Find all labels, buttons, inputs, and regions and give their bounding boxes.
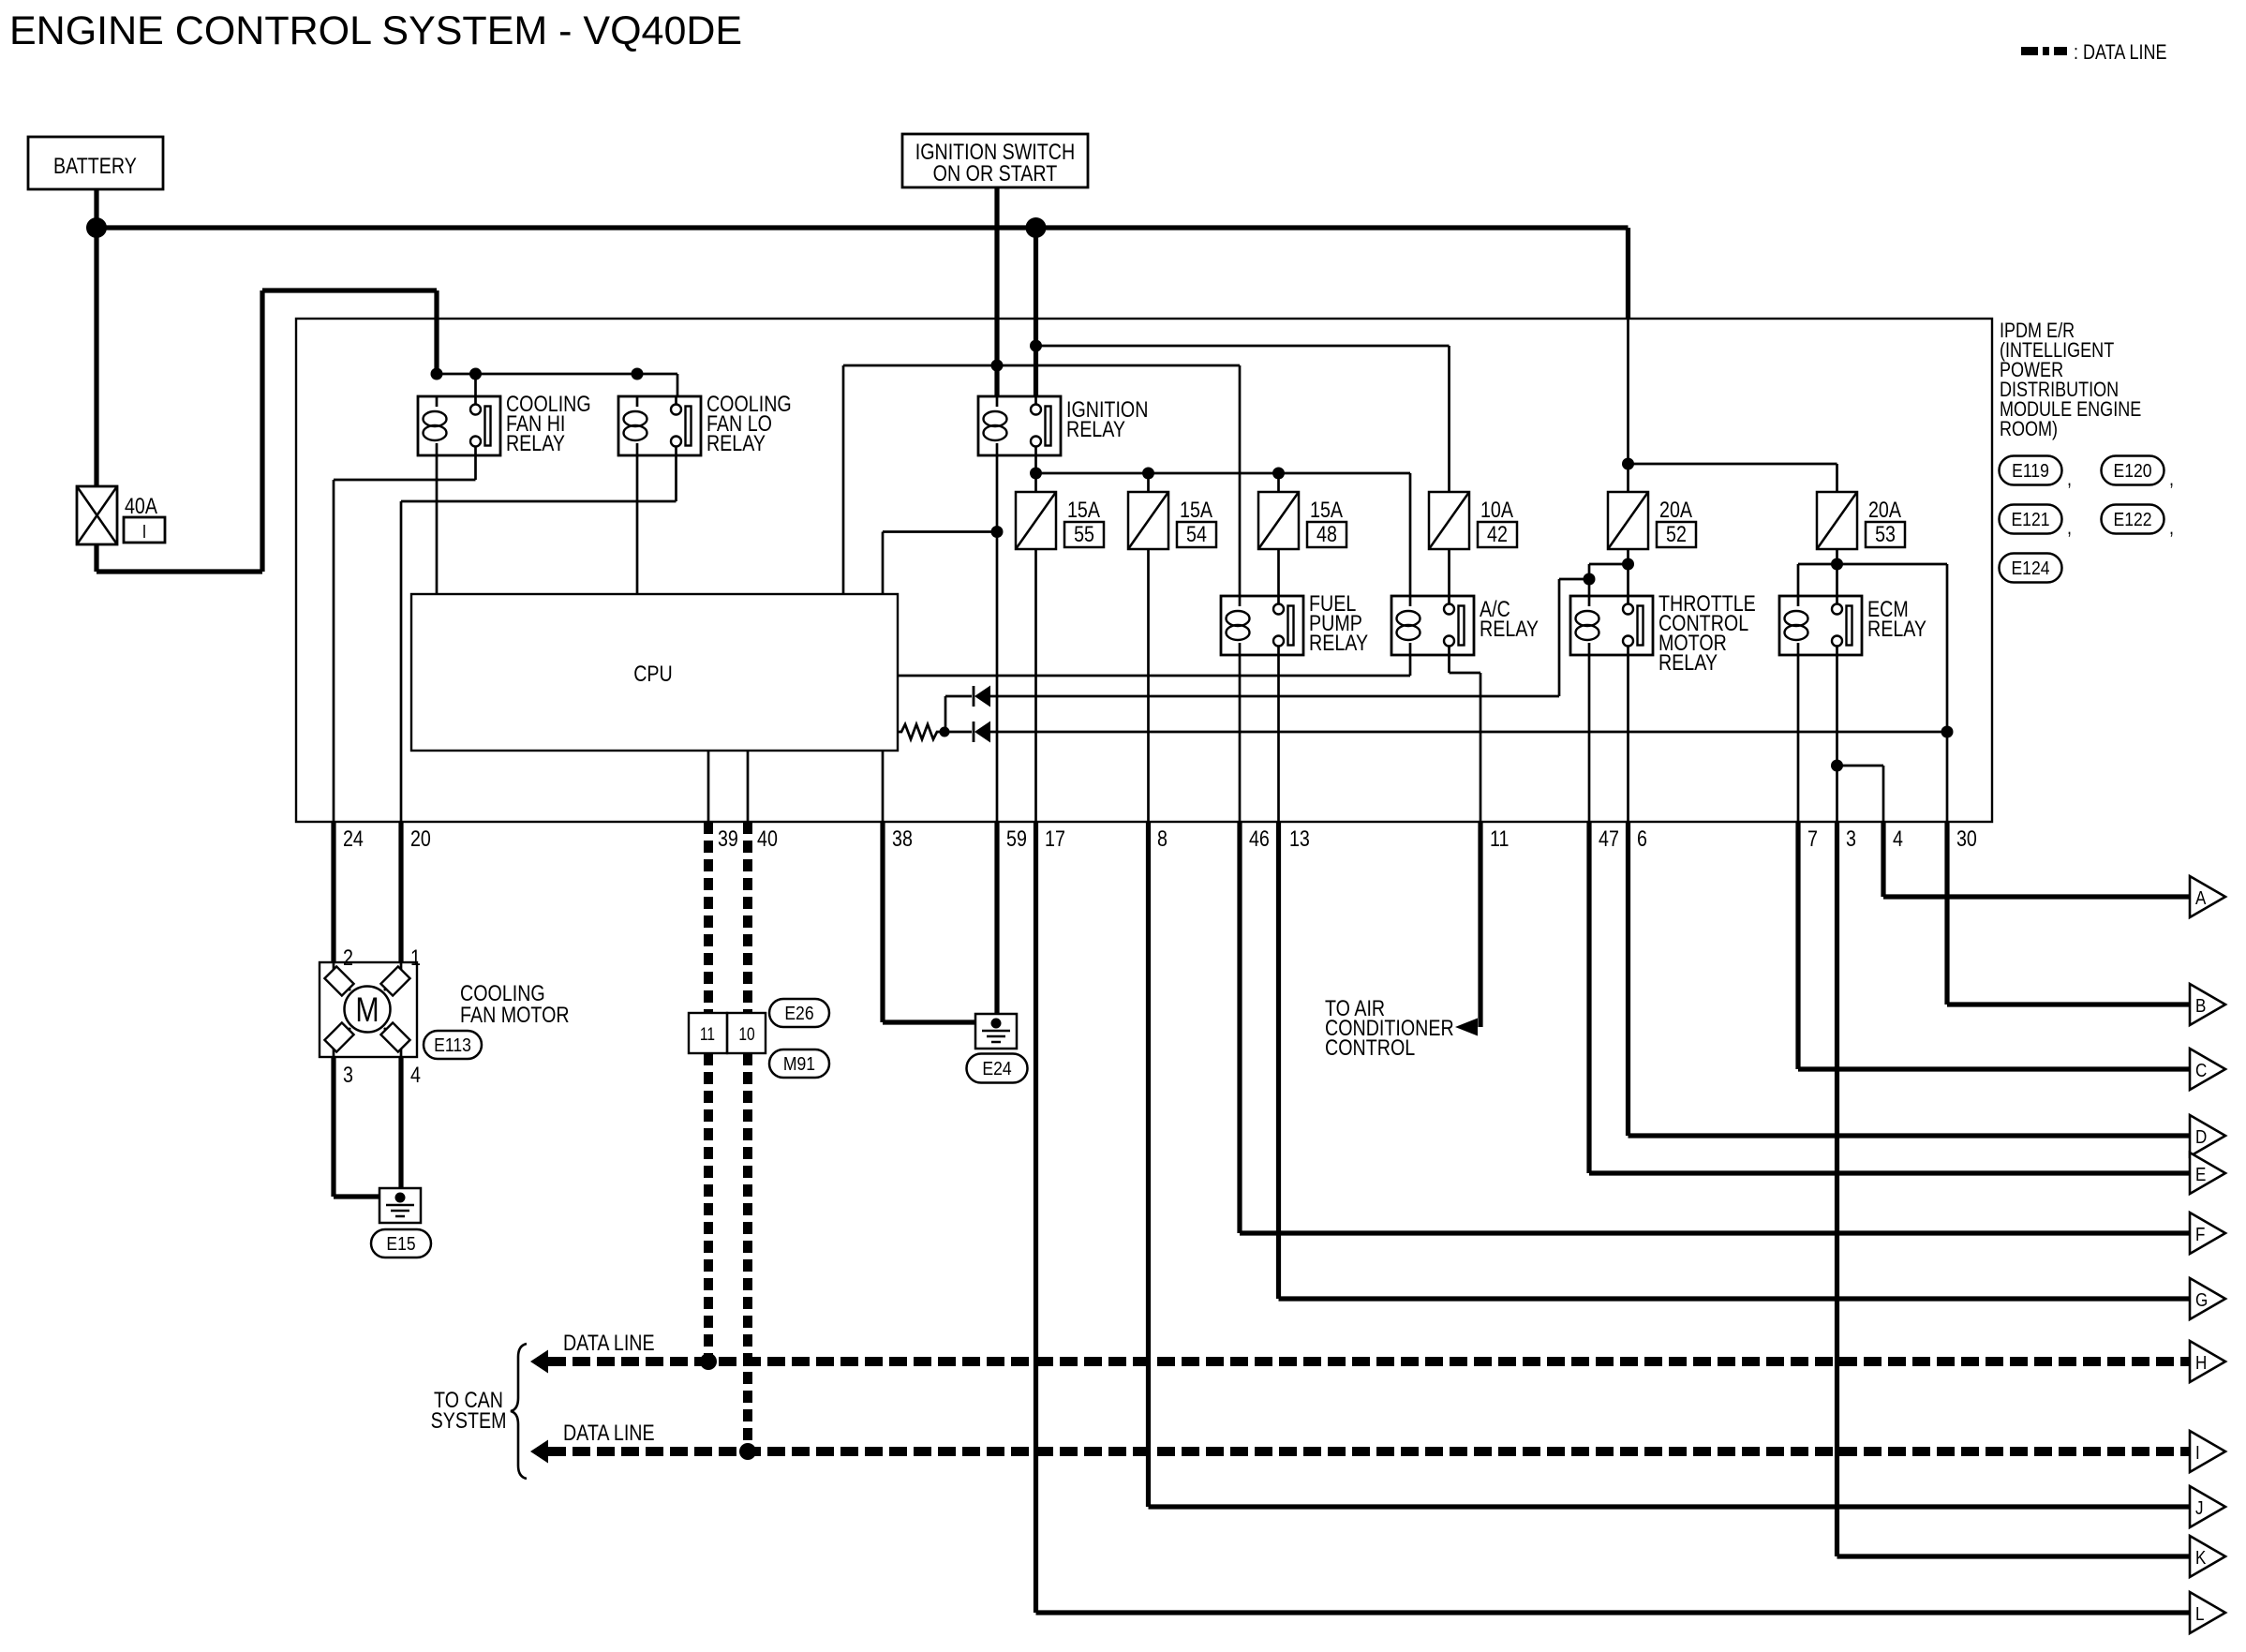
svg-text:D: D	[2195, 1126, 2207, 1148]
svg-text:ENGINE CONTROL SYSTEM - VQ40DE: ENGINE CONTROL SYSTEM - VQ40DE	[9, 8, 742, 53]
svg-text:52: 52	[1666, 521, 1687, 546]
svg-text:E24: E24	[982, 1058, 1011, 1079]
svg-text:I: I	[142, 520, 147, 542]
svg-text:11: 11	[1490, 826, 1509, 851]
svg-text:M: M	[355, 990, 379, 1030]
svg-text:DATA LINE: DATA LINE	[563, 1330, 655, 1355]
svg-text:4: 4	[1893, 826, 1903, 851]
svg-text:55: 55	[1074, 521, 1094, 546]
svg-text:E113: E113	[434, 1034, 471, 1055]
svg-text:,: ,	[2067, 516, 2072, 539]
svg-text:CPU: CPU	[633, 661, 673, 686]
svg-text:B: B	[2195, 995, 2206, 1017]
svg-text:RELAY: RELAY	[707, 430, 766, 455]
svg-text:ON OR START: ON OR START	[933, 160, 1058, 186]
svg-text:RELAY: RELAY	[1066, 416, 1125, 441]
svg-text:10: 10	[738, 1024, 754, 1045]
svg-text:24: 24	[343, 826, 364, 851]
svg-text:H: H	[2195, 1352, 2207, 1374]
svg-text:E26: E26	[784, 1003, 813, 1023]
svg-text:E124: E124	[2011, 558, 2049, 578]
svg-text:53: 53	[1875, 521, 1896, 546]
svg-text:E15: E15	[386, 1233, 415, 1254]
svg-text:FAN MOTOR: FAN MOTOR	[460, 1002, 570, 1027]
svg-text:20A: 20A	[1659, 497, 1692, 522]
svg-text:RELAY: RELAY	[1309, 630, 1368, 655]
svg-text:20: 20	[410, 826, 431, 851]
svg-text:RELAY: RELAY	[1480, 616, 1539, 641]
svg-text:15A: 15A	[1180, 497, 1212, 522]
svg-text:11: 11	[700, 1024, 715, 1045]
svg-text:E: E	[2195, 1164, 2206, 1185]
svg-text:K: K	[2195, 1547, 2207, 1569]
svg-text:40A: 40A	[125, 493, 157, 518]
svg-text:15A: 15A	[1067, 497, 1100, 522]
svg-text:BATTERY: BATTERY	[53, 153, 137, 178]
svg-text:C: C	[2195, 1060, 2207, 1081]
svg-text:10A: 10A	[1480, 497, 1513, 522]
svg-text:E122: E122	[2113, 509, 2151, 529]
svg-text:A: A	[2195, 887, 2207, 909]
svg-text:39: 39	[718, 826, 738, 851]
svg-text:6: 6	[1637, 826, 1647, 851]
svg-text:,: ,	[2169, 516, 2174, 539]
svg-text:: DATA LINE: : DATA LINE	[2074, 41, 2167, 64]
svg-text:SYSTEM: SYSTEM	[431, 1407, 507, 1433]
svg-text:E119: E119	[2012, 460, 2049, 481]
svg-text:15A: 15A	[1310, 497, 1343, 522]
svg-text:46: 46	[1249, 826, 1270, 851]
svg-text:8: 8	[1157, 826, 1168, 851]
svg-text:4: 4	[410, 1062, 421, 1087]
svg-text:54: 54	[1186, 521, 1207, 546]
svg-text:3: 3	[343, 1062, 353, 1087]
svg-text:RELAY: RELAY	[1658, 649, 1718, 675]
svg-text:48: 48	[1316, 521, 1337, 546]
svg-text:30: 30	[1956, 826, 1977, 851]
svg-text:42: 42	[1487, 521, 1508, 546]
svg-text:7: 7	[1807, 826, 1818, 851]
svg-text:13: 13	[1289, 826, 1310, 851]
svg-text:59: 59	[1006, 826, 1027, 851]
svg-text:L: L	[2195, 1603, 2204, 1625]
svg-text:1: 1	[410, 945, 421, 970]
svg-text:17: 17	[1045, 826, 1065, 851]
svg-text:,: ,	[2067, 468, 2072, 490]
svg-text:2: 2	[343, 945, 353, 970]
svg-text:G: G	[2195, 1289, 2208, 1311]
svg-text:RELAY: RELAY	[1867, 616, 1926, 641]
svg-text:20A: 20A	[1868, 497, 1901, 522]
svg-text:I: I	[2195, 1442, 2200, 1464]
svg-text:47: 47	[1599, 826, 1619, 851]
svg-text:J: J	[2195, 1497, 2204, 1519]
svg-text:,: ,	[2169, 468, 2174, 490]
svg-text:M91: M91	[783, 1053, 815, 1074]
svg-text:DATA LINE: DATA LINE	[563, 1420, 655, 1445]
svg-text:40: 40	[757, 826, 778, 851]
svg-text:E120: E120	[2113, 460, 2151, 481]
svg-text:38: 38	[892, 826, 913, 851]
svg-text:F: F	[2195, 1224, 2205, 1245]
svg-text:RELAY: RELAY	[506, 430, 565, 455]
svg-text:CONTROL: CONTROL	[1325, 1034, 1415, 1060]
svg-text:ROOM): ROOM)	[2000, 418, 2058, 440]
svg-text:3: 3	[1846, 826, 1856, 851]
svg-text:E121: E121	[2011, 509, 2049, 529]
